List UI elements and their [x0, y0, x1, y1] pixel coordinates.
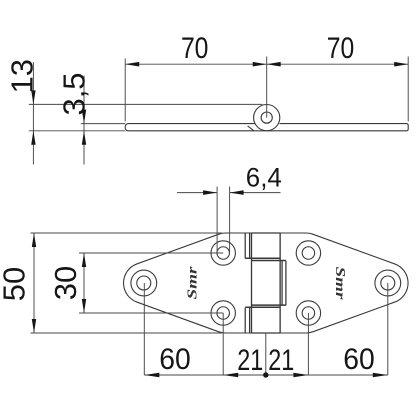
ext line bottom left tip hole — [143, 283, 145, 375]
arrow 70 centre-left — [253, 62, 267, 67]
ext line knuckle top (13) — [29, 103, 263, 105]
ext line bottom inner-right hole — [307, 313, 309, 375]
ext line leaf bottom — [29, 130, 125, 132]
left leaf edge at knuckle — [251, 233, 253, 333]
knuckle joint line lower a — [252, 304, 286, 306]
inner hole boss bottom-left — [211, 301, 235, 325]
dim line 50 vertical — [33, 233, 35, 333]
arrow 50 top — [32, 233, 36, 247]
ext line right end — [407, 57, 409, 122]
svg-text:Smr: Smr — [332, 267, 347, 301]
knuckle joint line upper b — [252, 260, 286, 262]
ext line 6,4 right — [229, 187, 231, 254]
svg-text:6,4: 6,4 — [246, 162, 282, 192]
pin hole circle (side view) — [261, 112, 272, 123]
arrow 70 left — [125, 62, 139, 67]
dim line 6,4 left part — [177, 192, 217, 194]
ext line bottom inner-left hole — [222, 313, 224, 375]
dim line bottom chain — [144, 374, 387, 376]
left tip hole — [137, 276, 151, 290]
arrow 13 top — [31, 90, 35, 104]
arrow 70 centre-right — [267, 62, 281, 67]
right tip hole boss — [375, 270, 401, 296]
inner hole boss top-left — [211, 241, 235, 265]
arrow 30 bottom — [82, 299, 86, 313]
hinge leaf bar (side view) — [125, 124, 408, 131]
dim line 3,5 vertical — [83, 76, 85, 165]
arrow 70 right — [394, 62, 408, 67]
ext line bottom right tip hole — [387, 283, 389, 375]
inner hole boss top-right — [296, 241, 320, 265]
left curl outer line top segment — [244, 233, 246, 258]
knuckle joint line upper a — [245, 257, 280, 259]
right wing outline — [280, 233, 408, 333]
ext line leaf top (3,5) — [81, 123, 125, 125]
ext line left end — [124, 59, 126, 122]
left wing outline — [124, 233, 252, 333]
knuckle joint line lower b — [245, 306, 280, 308]
ext line 50 bottom — [31, 332, 223, 334]
right curl outer line — [285, 261, 287, 306]
svg-text:30: 30 — [48, 266, 83, 300]
left curl outer line bottom segment — [244, 308, 246, 333]
svg-text:60: 60 — [159, 343, 191, 376]
arrow 3,5 bottom — [82, 131, 86, 145]
svg-text:50: 50 — [0, 267, 32, 301]
dim line 70+70 horizontal — [125, 63, 408, 65]
left curl inner line bottom segment — [249, 308, 251, 333]
svg-text:21: 21 — [268, 344, 294, 377]
ext line 30 top — [79, 252, 223, 254]
knuckle outer circle (side view) — [254, 105, 280, 131]
svg-text:70: 70 — [327, 32, 355, 65]
svg-text:Smr: Smr — [186, 266, 201, 300]
ext line 50 top — [31, 232, 223, 234]
arrow 13 bottom — [31, 131, 35, 145]
arrow 6,4 left — [203, 190, 217, 195]
svg-text:3,5: 3,5 — [56, 72, 91, 115]
dim line 6,4 right part — [230, 192, 281, 194]
ext line 30 bottom — [79, 312, 223, 314]
ext line bottom centre — [265, 333, 267, 375]
inner hole bottom-right — [302, 307, 315, 320]
arrow 21 right — [293, 373, 308, 378]
left curl inner line top segment — [249, 233, 251, 258]
arrow 3,5 top — [82, 110, 86, 124]
arrow 30 top — [82, 253, 86, 267]
right curl inner line — [281, 261, 283, 306]
inner hole boss bottom-right — [296, 301, 320, 325]
right tip hole — [381, 276, 395, 290]
knuckle top edge — [252, 232, 281, 234]
centre dot of 21/21 — [263, 372, 268, 377]
left tip hole boss — [131, 270, 157, 296]
knuckle bottom edge — [252, 332, 281, 334]
right leaf edge at knuckle — [279, 233, 281, 333]
arrow 6,4 right — [230, 190, 244, 195]
arrow 60 right end — [373, 373, 388, 378]
arrow 50 bottom — [32, 319, 36, 333]
arrow 21 left — [223, 373, 238, 378]
arrow 60 left end — [144, 373, 159, 378]
dim line 13 vertical — [32, 62, 34, 165]
svg-text:13: 13 — [5, 59, 40, 93]
ext line 6,4 left — [216, 187, 218, 254]
inner hole top-right — [302, 247, 315, 260]
leaf curl end diagonal — [248, 126, 255, 131]
svg-text:70: 70 — [181, 32, 209, 65]
svg-text:21: 21 — [237, 344, 263, 377]
svg-text:60: 60 — [343, 343, 375, 376]
inner hole top-left — [217, 247, 230, 260]
dim line 30 vertical — [83, 253, 85, 313]
inner hole bottom-left — [217, 307, 230, 320]
ext line pin centre — [266, 57, 268, 118]
